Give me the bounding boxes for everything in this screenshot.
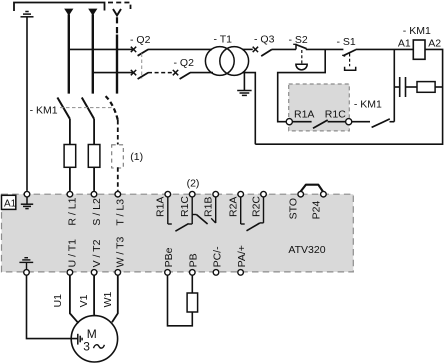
terminal T/L3 [115,191,121,197]
terminal PBe [165,270,171,276]
R2C contact line [263,197,265,223]
motor label ~ [94,345,105,349]
wire relay contact left [292,121,312,123]
wire braking resistor loop [168,275,193,326]
fuse F1 [64,145,76,168]
wire phase L3 solid part [116,35,118,94]
S1 actuator dashed link [349,54,351,67]
svg-text:PBe: PBe [163,247,175,267]
R1C contact line [191,197,193,224]
svg-text:R1C: R1C [179,196,191,217]
wire phase L2 [92,15,94,94]
wire Q3 to S2 [272,48,296,50]
terminal R1C [189,191,195,197]
terminal U/T1 [67,270,73,276]
wire T1 secondary bottom return [243,73,255,145]
relay terminal R1C circle [346,119,352,125]
contactor aux KM1 blade [372,119,390,128]
svg-text:S / L2: S / L2 [91,198,103,226]
contactor KM1 linkage dashed [60,107,113,109]
svg-text:U / T1: U / T1 [67,239,79,268]
fuse F3 dashed [112,145,124,168]
svg-text:(2): (2) [187,177,200,189]
svg-text:- KM1: - KM1 [30,104,58,116]
R1A contact line [167,197,169,224]
wire row1 to T1 [148,48,212,50]
breaker Q2 pole1 terminal X [131,47,136,52]
svg-text:R2A: R2A [228,197,240,217]
wire fuse2 to drive [93,167,95,191]
svg-text:R1A: R1A [294,109,314,121]
svg-text:V1: V1 [78,294,90,307]
breaker Q2 pole1 blade [138,49,149,55]
contactor KM1 pole3 dashed blade [106,96,118,120]
ground T1 [237,71,251,95]
pushbutton S1 NO contact blade [343,50,356,56]
PE earth symbol (top left) [21,12,34,17]
R1A-R1C blade [175,224,188,232]
S1 blade end tick [342,55,345,56]
breaker Q3 blade [261,49,272,56]
wire pole3 to fuse dashed [117,120,119,145]
svg-text:R2C: R2C [250,196,262,217]
terminal R1B [213,191,219,197]
wire PB down [191,275,193,293]
wire PE to motor [27,275,78,339]
wire PE vertical [26,17,28,191]
wire fuse1 to drive [69,167,71,191]
ground inside drive top [21,197,33,209]
wire RC branch left [394,86,399,88]
terminal V/T2 [91,270,97,276]
svg-text:- S1: - S1 [337,36,356,48]
wire capacitor to resistor [406,86,418,88]
supply bracket [14,3,105,12]
terminal circles top edge [24,191,326,197]
wire row2 dashed link [148,72,173,74]
wire V/T2 to motor [93,275,95,316]
terminal R1A [165,191,171,197]
wire tap row1 [69,48,134,50]
terminal P24 [321,191,327,197]
breaker Q2b terminal X [173,70,178,75]
svg-text:U1: U1 [52,294,64,308]
svg-text:R1C: R1C [325,109,346,121]
motor M1 [71,316,117,362]
svg-text:R / L1: R / L1 [67,197,79,225]
terminal STO [298,191,304,197]
supply arrow L3 dashed [113,9,121,15]
A1 designator box [2,195,16,209]
contactor KM1 blade pole2 [82,98,94,119]
svg-text:P24: P24 [310,201,322,220]
braking resistor [187,293,198,312]
svg-text:A1: A1 [4,198,17,209]
svg-text:T / L3: T / L3 [115,199,127,226]
wire pole2 to fuse [93,119,95,145]
resistor (RC snubber) [417,82,435,93]
supply bracket dashed continuation [108,3,131,10]
wire phase L1 [68,15,70,94]
svg-text:STO: STO [288,198,300,219]
svg-text:PA/+: PA/+ [236,245,248,267]
wire relay contact right [328,121,346,123]
relay terminal R1A circle [286,119,292,125]
wire tap row2 [93,72,134,74]
breaker Q3 terminal X [253,47,258,52]
terminal PC/- [213,270,219,276]
breaker Q2 pole linkage dashed [141,54,143,79]
svg-text:A2: A2 [428,37,441,49]
wire row2 to T1 [190,72,213,74]
svg-text:PC/-: PC/- [211,246,223,268]
wire W/T3 to motor [112,275,118,322]
contactor KM1 blade pole1 [57,98,70,119]
transformer T1 [205,47,248,76]
svg-text:- T1: - T1 [214,34,233,46]
wire S2 to junction [306,48,344,50]
svg-text:(1): (1) [130,151,143,163]
pushbutton S2 NC contact [293,44,306,49]
S1 actuator bracket [345,67,356,71]
svg-text:- Q2: - Q2 [130,34,151,46]
terminal PE bottom [24,270,30,276]
terminal W/T3 [115,270,121,276]
svg-text:W / T3: W / T3 [115,237,127,268]
R1B contact line [215,197,217,223]
S2 mushroom head [296,64,307,70]
wire resistor to right edge [435,86,443,88]
wire R1C to KM1 aux [352,121,370,123]
contactor coil KM1 [413,40,425,59]
svg-text:V / T2: V / T2 [91,239,103,267]
R2A-R2C blade [247,223,260,231]
wire A1 node vertical [393,49,395,121]
svg-text:- KM1: - KM1 [403,25,431,37]
breaker Q2 pole2 blade [138,73,149,79]
supply arrow L2 [88,9,97,16]
wire latch branch down from junction [278,49,326,121]
ground inside drive bottom [19,258,33,270]
svg-text:PB: PB [188,253,200,267]
wire coil to right edge [255,49,442,144]
fuse F2 [88,145,100,168]
svg-text:- KM1: - KM1 [354,99,382,111]
capacitor plates [400,77,406,97]
svg-text:- Q3: - Q3 [254,34,275,46]
svg-text:A1: A1 [398,37,411,49]
terminal PA/+ [238,270,244,276]
svg-text:- Q2: - Q2 [174,57,195,69]
wire T1 secondary top [243,48,253,50]
svg-text:W1: W1 [102,291,114,307]
wire fuse3 to drive dashed [117,167,119,191]
breaker Q2b blade [180,73,191,79]
motor earth bars [78,334,82,345]
svg-text:3: 3 [83,340,90,354]
R2A contact line [240,197,242,224]
wire phase L3 dashed part [116,17,118,34]
wire U/T1 to motor [70,275,79,323]
drive block A1 (ATV320) [2,194,354,272]
wire pole1 to fuse [69,119,71,145]
STO-P24 jumper [301,185,323,192]
terminal R2C [261,191,267,197]
wire S1 to coil [356,48,414,50]
terminal PE top [24,191,30,197]
svg-text:R1A: R1A [155,197,167,217]
S2 actuator dashed link [301,50,303,64]
svg-text:R1B: R1B [203,197,215,217]
R1C-R1B NC blade [192,214,196,216]
relay R1 contacts inside drive [168,197,264,231]
terminal PB [190,270,196,276]
relay contact box (drive fault relay) [289,84,350,131]
svg-text:- S2: - S2 [289,34,308,46]
svg-text:ATV320: ATV320 [288,244,325,256]
supply arrow L1 [64,9,73,16]
terminal circles bottom edge [24,270,244,276]
terminal R/L1 [67,191,73,197]
relay contact blade [313,120,328,128]
breaker Q2 pole2 terminal X [131,70,136,75]
wire KM1 aux to A1 node [390,121,395,123]
terminal S/L2 [91,191,97,197]
terminal R2A [238,191,244,197]
